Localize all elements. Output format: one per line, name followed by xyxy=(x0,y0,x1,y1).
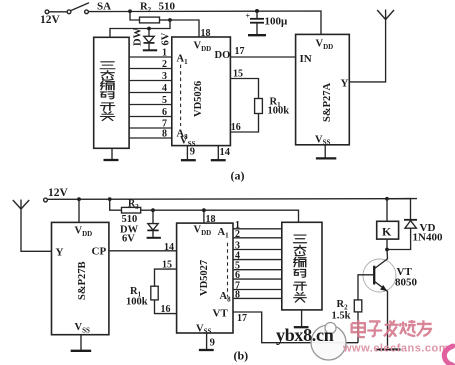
switch SA terminal 3 xyxy=(85,10,89,14)
watermark logo circle xyxy=(311,325,346,360)
svg-text:6V: 6V xyxy=(122,234,135,245)
watermark logo small circle xyxy=(325,323,336,334)
wire VDD stem S&P27B xyxy=(78,199,80,222)
wire row 6 (b) xyxy=(233,278,282,280)
tri-state code switch block (a) xyxy=(94,37,129,148)
svg-text:100k: 100k xyxy=(268,106,290,117)
svg-text:S&P27A: S&P27A xyxy=(322,83,333,123)
svg-text:15: 15 xyxy=(162,260,172,271)
transistor VT emitter xyxy=(375,282,388,349)
svg-text:S&P27B: S&P27B xyxy=(77,261,88,300)
wire pin 15 (b) xyxy=(155,269,177,286)
wire R3 to node xyxy=(141,209,153,211)
node R2 tap on rail xyxy=(128,9,132,13)
svg-text:www.elecfans.com: www.elecfans.com xyxy=(342,343,449,355)
node pin18 tap (b) xyxy=(202,208,206,212)
svg-text:14: 14 xyxy=(164,242,174,253)
svg-text:6: 6 xyxy=(235,270,240,281)
svg-text:IN: IN xyxy=(300,53,312,65)
wire base to R2 xyxy=(358,275,374,300)
svg-text:ybx8.cn: ybx8.cn xyxy=(276,325,334,345)
ground pin 9 (b) xyxy=(206,333,208,349)
zener DW anode bar xyxy=(143,49,157,51)
svg-text:1: 1 xyxy=(162,48,167,59)
ground pin 14 (a) xyxy=(217,146,219,160)
svg-text:100k: 100k xyxy=(126,297,148,308)
node relay tap xyxy=(385,197,389,201)
node relay bottom xyxy=(385,248,389,252)
svg-text:15: 15 xyxy=(233,69,243,80)
svg-text:VD5027: VD5027 xyxy=(199,260,210,296)
wire branch to zener and switch block xyxy=(110,20,170,37)
IC U4 VD5027 xyxy=(177,223,233,333)
label 三态编码开关 (b) xyxy=(294,235,307,302)
terminal 12V (b) xyxy=(44,198,48,202)
wire row 7 xyxy=(129,127,172,129)
wire row 8 xyxy=(129,137,172,139)
zener DW (b) anode bar xyxy=(147,237,161,239)
wire row 3 xyxy=(129,80,172,82)
svg-text:Y: Y xyxy=(56,247,64,259)
wire row 2 xyxy=(129,68,172,70)
IC U3 S&P27B xyxy=(52,222,109,334)
wire row 2 (b) xyxy=(233,237,282,239)
wire row 4 (b) xyxy=(233,259,282,261)
zener DW (b) triangle xyxy=(148,224,158,230)
svg-text:8050: 8050 xyxy=(395,277,418,289)
wire relay stem xyxy=(386,199,388,222)
transistor VT base bar xyxy=(373,266,375,285)
svg-text:DW: DW xyxy=(133,27,144,46)
svg-text:VD5026: VD5026 xyxy=(193,81,204,117)
svg-text:1.5k: 1.5k xyxy=(332,311,351,322)
svg-text:100μ: 100μ xyxy=(265,16,289,28)
resistor R1 (b) xyxy=(151,286,158,300)
switch SA blade xyxy=(71,3,89,11)
svg-text:K: K xyxy=(382,225,392,239)
wire relay bottom xyxy=(386,239,388,249)
svg-text:2: 2 xyxy=(162,59,167,70)
resistor R3 xyxy=(122,207,141,213)
wire 12V rail (a) xyxy=(88,11,321,34)
wire DO pin17 to IN xyxy=(230,56,295,58)
wire row 4 xyxy=(129,92,172,94)
diode VD cathode bar xyxy=(404,219,417,221)
wire pin18 stem (b) xyxy=(203,210,205,223)
zener DW (b) anode lead xyxy=(152,230,154,237)
watermark red 烧 xyxy=(400,320,416,336)
svg-text:17: 17 xyxy=(235,46,245,57)
watermark pink corner glyph xyxy=(444,346,453,365)
node VDD S&P27B tap xyxy=(77,197,81,201)
svg-text:CP: CP xyxy=(92,246,107,258)
svg-text:SA: SA xyxy=(97,1,111,13)
resistor R3 feed xyxy=(110,199,122,210)
svg-text:Y: Y xyxy=(341,78,349,90)
svg-text:+: + xyxy=(246,12,251,21)
ground of switch block (a) xyxy=(111,148,113,159)
transistor VT envelope xyxy=(363,259,396,292)
wire node to block feed rail xyxy=(153,210,299,222)
wire row 1 (b) xyxy=(233,228,282,230)
wire row 6 xyxy=(129,116,172,118)
pin number labels 1-8 (a) xyxy=(162,48,167,140)
label 三态编码开关 (a) xyxy=(100,62,115,121)
wire R2 bottom xyxy=(357,312,359,343)
zener DW (b) cathode bar xyxy=(147,229,158,231)
watermark red 友 xyxy=(417,320,432,336)
switch SA terminal 1 xyxy=(45,10,49,14)
wire switch segment xyxy=(49,11,67,13)
svg-text:16: 16 xyxy=(231,122,241,133)
wire rail end to diode xyxy=(387,199,411,220)
svg-text:9: 9 xyxy=(190,147,195,158)
svg-text:(b): (b) xyxy=(234,349,249,363)
svg-text:8: 8 xyxy=(162,129,167,140)
svg-text:510: 510 xyxy=(159,1,176,13)
wire R2 to node xyxy=(160,19,171,21)
dashed A1..A8 (b) xyxy=(227,243,229,297)
wire 12V rail (b) xyxy=(48,198,418,201)
ground S&P27A xyxy=(324,145,326,158)
antenna (a) xyxy=(377,10,385,20)
node after R2 xyxy=(168,18,172,22)
wire row 1 xyxy=(129,56,172,58)
emitter arrow xyxy=(380,285,387,291)
svg-text:4: 4 xyxy=(162,83,167,94)
IC U1 VD5026 xyxy=(172,37,231,146)
svg-text:3: 3 xyxy=(162,71,167,82)
wire R2 feed xyxy=(130,11,140,20)
dashed A1..A8 xyxy=(180,65,182,126)
wire row 8 (b) xyxy=(233,297,282,299)
resistor R2 xyxy=(140,17,160,23)
tri-state code switch block (b) xyxy=(282,222,322,310)
transistor VT collector xyxy=(375,250,388,269)
svg-text:VT: VT xyxy=(213,308,229,320)
svg-text:14: 14 xyxy=(220,147,231,158)
svg-text:6: 6 xyxy=(162,107,167,118)
resistor R1 (a) xyxy=(255,99,263,114)
wire Y to antenna (a) xyxy=(349,10,385,82)
watermark red 发 xyxy=(384,320,399,337)
ground pin 9 (a) xyxy=(186,146,188,160)
ground emitter xyxy=(377,348,401,350)
switch SA terminal 2 xyxy=(67,10,71,14)
IC U2 S&P27A xyxy=(296,34,350,144)
wire VT pin 17 to base resistor xyxy=(233,312,358,343)
watermark red 电 xyxy=(352,320,365,337)
zener DW cathode bar xyxy=(144,42,155,44)
svg-text:17: 17 xyxy=(237,313,247,324)
svg-text:6V: 6V xyxy=(161,32,172,45)
ground S&P27B xyxy=(80,335,82,350)
svg-text:1N400: 1N400 xyxy=(413,232,443,244)
ground of switch block (b) xyxy=(301,310,303,326)
svg-text:9: 9 xyxy=(210,338,215,349)
wire node to pin18 xyxy=(170,20,199,37)
svg-text:12V: 12V xyxy=(40,14,61,26)
node capacitor tap xyxy=(255,9,259,13)
wire row 5 (b) xyxy=(233,269,282,271)
zener DW lead xyxy=(148,29,150,37)
zener DW triangle xyxy=(144,36,154,42)
node zener tap (b) xyxy=(151,208,155,212)
zener DW anode lead xyxy=(148,43,150,50)
wire row 7 (b) xyxy=(233,289,282,291)
svg-text:12V: 12V xyxy=(48,187,69,199)
svg-text:16: 16 xyxy=(161,304,171,315)
node zener tap xyxy=(147,27,151,31)
antenna (b) xyxy=(21,200,52,252)
svg-text:5: 5 xyxy=(162,95,167,106)
node R3 tap xyxy=(108,197,112,201)
zener DW (b) lead xyxy=(152,210,154,223)
wire CP to pin 14 xyxy=(109,250,177,252)
diode VD anode lead xyxy=(387,228,411,249)
relay K box xyxy=(377,221,399,239)
wire pin 16 xyxy=(230,114,258,133)
svg-text:510: 510 xyxy=(122,214,138,225)
svg-text:8: 8 xyxy=(235,289,240,300)
svg-text:2: 2 xyxy=(235,229,240,240)
ground capacitor xyxy=(248,34,266,36)
watermark red 子 xyxy=(367,321,382,336)
svg-text:DO: DO xyxy=(215,50,231,61)
diode VD triangle xyxy=(405,221,417,229)
wire pin 15 xyxy=(230,79,258,99)
resistor R2 (b) xyxy=(354,300,362,312)
pin number labels 1-8 (b) xyxy=(235,220,240,301)
capacitor C1 100u xyxy=(256,11,258,18)
svg-text:(a): (a) xyxy=(231,169,245,183)
wire row 3 (b) xyxy=(233,249,282,251)
wire pin 16 (b) xyxy=(155,300,177,314)
wire row 5 xyxy=(129,104,172,106)
